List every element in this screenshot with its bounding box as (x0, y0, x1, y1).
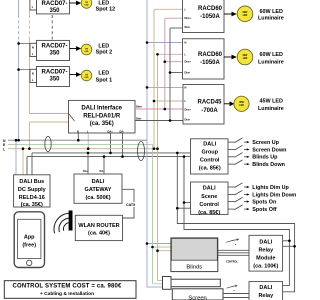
svg-text:Relay: Relay (258, 248, 274, 254)
60W LED luminaire 1 lamp (237, 6, 253, 22)
svg-text:Dim-: Dim- (185, 118, 191, 122)
wire L to screen (158, 280, 163, 282)
wire L to driver1 (154, 8, 183, 10)
LED Spot 2 lamp (81, 44, 92, 55)
router antenna (69, 211, 73, 231)
bus L (8, 148, 158, 150)
svg-text:L: L (3, 147, 5, 151)
svg-text:CONTROL SYSTEM COST = ca. 980€: CONTROL SYSTEM COST = ca. 980€ (13, 284, 122, 290)
svg-text:DALI: DALI (259, 239, 272, 245)
svg-text:Dim-: Dim- (136, 117, 142, 121)
driver RACD07-350 #2 (30, 40, 70, 60)
svg-text:45W LED: 45W LED (260, 99, 283, 105)
svg-text:-1050A: -1050A (200, 14, 220, 20)
wire N to luminaire driver2 (147, 42, 183, 44)
wire L vertical A (brown) (153, 9, 155, 148)
wire drop to DC supply L (22, 149, 24, 175)
luminaire driver RACD45 (183, 85, 224, 125)
svg-text:60W LED: 60W LED (260, 9, 283, 15)
svg-text:Group: Group (201, 149, 218, 155)
wire Dim- (black) (135, 120, 183, 122)
svg-text:CAT5: CAT5 (126, 203, 135, 207)
svg-text:Relay: Relay (258, 293, 274, 299)
wire DA+ branch to scene (177, 207, 190, 209)
wire Dim+ (red) (135, 108, 183, 110)
svg-text:(ca. 35€): (ca. 35€) (21, 202, 43, 208)
svg-text:Screen: Screen (188, 296, 206, 300)
wire N branch to driver2 (19, 43, 30, 45)
wire L hook driver1 (29, 9, 31, 11)
LED Spot 1 lamp (81, 70, 92, 81)
svg-text:DALI Bus: DALI Bus (19, 179, 44, 185)
wire L feed to interface upper (29, 113, 68, 115)
svg-text:Screen Up: Screen Up (252, 140, 279, 146)
svg-text:60W: 60W (243, 55, 249, 57)
svg-text:N: N (185, 85, 187, 89)
svg-text:Dim+: Dim+ (185, 108, 192, 112)
label 60W LED luminaire 2 (258, 52, 284, 66)
svg-text:DALI: DALI (203, 141, 216, 147)
DALI group control (191, 139, 229, 174)
svg-text:RACD60: RACD60 (198, 6, 223, 12)
svg-text:CONTROL: CONTROL (226, 261, 238, 264)
svg-text:Spot 2: Spot 2 (96, 49, 112, 55)
wire L to blinds (158, 250, 171, 252)
node interface L drop (87, 133, 89, 149)
svg-text:App: App (24, 235, 35, 241)
svg-text:DC Supply: DC Supply (18, 187, 47, 193)
wire relay1 out A (283, 240, 290, 242)
svg-text:DALI Interface: DALI Interface (81, 105, 122, 111)
svg-text:Scene: Scene (201, 194, 217, 200)
svg-text:N: N (185, 41, 187, 45)
svg-text:DA+: DA+ (83, 169, 89, 173)
wire N vertical right (blue) (146, 0, 148, 287)
svg-text:+ Cabling & Installation: + Cabling & Installation (40, 291, 94, 297)
svg-text:Luminaire: Luminaire (258, 16, 284, 22)
DALI relay module 1 (249, 235, 283, 271)
svg-text:Luminaire: Luminaire (258, 60, 284, 66)
DALI gateway (74, 174, 122, 203)
dashed continuation spots 3..11 (51, 15, 53, 40)
svg-text:Dim+: Dim+ (185, 16, 192, 20)
svg-text:Screen Down: Screen Down (252, 147, 286, 153)
svg-text:DALI: DALI (92, 179, 105, 185)
wire DA- branch to scene (184, 202, 191, 204)
svg-text:RACD07-: RACD07- (41, 70, 67, 76)
label 45W LED luminaire (258, 99, 284, 113)
bus E (8, 143, 153, 145)
wire L to driver2 (158, 53, 183, 55)
svg-text:LED: LED (85, 77, 89, 79)
DALI bus DC supply RELD4-16 (14, 175, 50, 208)
svg-text:DALI: DALI (203, 185, 216, 191)
svg-text:Spots Off: Spots Off (252, 207, 276, 213)
svg-text:Dim-: Dim- (185, 25, 191, 29)
switch screen control (227, 286, 236, 288)
wire drop to DC supply DA+ (31, 153, 33, 175)
wire DA- loop to relays (184, 157, 289, 286)
wire gateway DA- stub (103, 157, 105, 174)
svg-text:Lights Dim Down: Lights Dim Down (252, 192, 296, 198)
svg-text:Spot 1: Spot 1 (96, 78, 112, 84)
svg-text:WLAN ROUTER: WLAN ROUTER (78, 223, 119, 229)
luminaire driver RACD60 #2 (183, 39, 225, 79)
arrow to 60W luminaire 2 (224, 55, 237, 60)
svg-text:Lights Dim Up: Lights Dim Up (252, 185, 289, 191)
svg-text:-700A: -700A (201, 108, 218, 114)
svg-text:(ca. 40€): (ca. 40€) (88, 231, 110, 237)
svg-text:350: 350 (49, 77, 60, 83)
wire N branch to driver3 (19, 69, 30, 71)
svg-text:350: 350 (49, 51, 60, 57)
node interface DA+ drop (110, 133, 112, 153)
arrow to LED spot 12 (70, 1, 82, 6)
wires blinds to relay1 (218, 250, 249, 255)
wire CAT5 (122, 189, 134, 218)
wire drop to DC supply N (15, 140, 17, 175)
label LED Spot 2 (96, 43, 112, 55)
svg-text:60W LED: 60W LED (260, 52, 283, 58)
svg-text:DA-: DA- (100, 169, 105, 173)
60W LED luminaire 2 lamp (237, 49, 253, 65)
arrow to LED spot 2 (70, 46, 82, 51)
svg-text:N: N (32, 45, 34, 49)
svg-text:DA-: DA- (120, 129, 125, 133)
labels group switches (252, 140, 286, 168)
labels scene switches (252, 185, 296, 213)
svg-text:Spots On: Spots On (252, 200, 276, 206)
svg-text:N: N (77, 129, 79, 133)
wire E to blinds (153, 246, 171, 248)
wire DA+ loop to relays (177, 153, 294, 292)
wire gateway DA+ stub (87, 153, 89, 174)
arrow to 45W luminaire (224, 101, 234, 106)
wire relay1 out B (283, 245, 295, 247)
svg-text:LED: LED (85, 4, 89, 6)
cost summary box (4, 281, 136, 299)
wire L feed to interface lower (29, 121, 68, 123)
svg-text:RELI-DA01/R: RELI-DA01/R (83, 113, 121, 119)
label LED Spot 12 (96, 1, 115, 13)
arrow to 60W luminaire 1 (224, 12, 237, 17)
driver RACD07-350 #3 (30, 67, 70, 87)
svg-text:LED: LED (243, 15, 248, 17)
svg-text:GATEWAY: GATEWAY (85, 187, 112, 193)
svg-text:(ca. 85€): (ca. 85€) (199, 166, 221, 172)
svg-text:350: 350 (49, 8, 60, 14)
svg-text:Blinds: Blinds (186, 264, 202, 270)
label LED Spot 1 (96, 70, 112, 83)
svg-text:(ca. 35€): (ca. 35€) (90, 121, 114, 127)
wire N to blinds (147, 243, 171, 245)
DALI scene control (191, 182, 229, 216)
DALI relay module 2 (249, 282, 283, 300)
wire N vertical left (blue) (18, 0, 20, 140)
WLAN router (75, 215, 122, 240)
svg-text:(ca. 100€): (ca. 100€) (253, 263, 278, 269)
svg-text:(ca. 500€): (ca. 500€) (85, 195, 110, 201)
switch blinds control (226, 240, 237, 243)
arrow to LED spot 1 (70, 72, 82, 77)
svg-text:45W: 45W (239, 101, 245, 104)
svg-text:RACD45: RACD45 (197, 100, 222, 106)
svg-text:Blinds Down: Blinds Down (252, 162, 285, 168)
label 60W LED luminaire 1 (258, 9, 284, 22)
wire drop to DC supply DA- (26, 157, 28, 175)
svg-text:LED: LED (239, 105, 244, 107)
bus DA- (27, 156, 191, 158)
LED Spot 12 lamp (81, 0, 92, 8)
svg-text:(free): (free) (22, 243, 36, 249)
wire L vertical left (brown) (28, 10, 30, 149)
svg-text:Dim-: Dim- (185, 71, 191, 75)
bus N (8, 139, 147, 141)
svg-text:LED: LED (98, 70, 109, 76)
svg-text:Spot 12: Spot 12 (96, 7, 115, 13)
svg-text:Luminaire: Luminaire (258, 106, 284, 112)
wire E to screen (153, 283, 163, 285)
DALI interface RELI-DA01/R (69, 100, 143, 133)
cable ellipse mid (138, 142, 145, 161)
svg-text:Dim+: Dim+ (185, 60, 192, 64)
label CAT5 (126, 202, 138, 207)
svg-text:Module: Module (256, 256, 275, 262)
wire L vertical B (brown) (157, 54, 159, 280)
wire N to luminaire driver3 (147, 86, 183, 88)
svg-text:LED: LED (85, 51, 89, 53)
driver RACD07-350 #1 (30, 0, 70, 14)
svg-text:Control: Control (199, 202, 219, 208)
svg-text:-1050A: -1050A (200, 60, 220, 66)
svg-text:RACD07-: RACD07- (41, 44, 67, 50)
svg-text:(ca. 85€): (ca. 85€) (198, 210, 220, 216)
svg-text:Control: Control (200, 157, 220, 163)
svg-text:60W: 60W (243, 12, 249, 14)
svg-text:DA+: DA+ (108, 129, 114, 133)
screen motor (163, 277, 172, 290)
bus DA+ (32, 152, 191, 154)
scene control switches (228, 183, 248, 210)
svg-text:RELD4-16: RELD4-16 (19, 195, 45, 201)
wifi waves (54, 213, 69, 233)
luminaire driver RACD60 #1 (183, 0, 225, 33)
wire L to driver3 (154, 100, 183, 102)
svg-text:RACD07-: RACD07- (41, 1, 67, 7)
svg-text:LED: LED (243, 58, 248, 60)
screen roller bar (171, 279, 220, 287)
group control switches (228, 138, 248, 165)
node interface N drop (77, 133, 79, 140)
smartphone app (14, 212, 44, 268)
screen panel (172, 289, 223, 300)
svg-text:RACD60: RACD60 (198, 52, 223, 58)
svg-text:Blinds Up: Blinds Up (252, 155, 278, 161)
svg-text:Dim+: Dim+ (136, 105, 143, 109)
svg-text:DALI: DALI (259, 285, 272, 291)
blinds actuator (171, 238, 218, 272)
wire N to screen (147, 286, 163, 288)
svg-text:N: N (32, 71, 34, 75)
cable ellipse left (45, 136, 51, 151)
wire E vertical (green) (152, 144, 154, 283)
wires screen to relay2 (223, 294, 249, 298)
node interface DA- drop (122, 133, 124, 157)
45W LED luminaire lamp (234, 96, 249, 111)
